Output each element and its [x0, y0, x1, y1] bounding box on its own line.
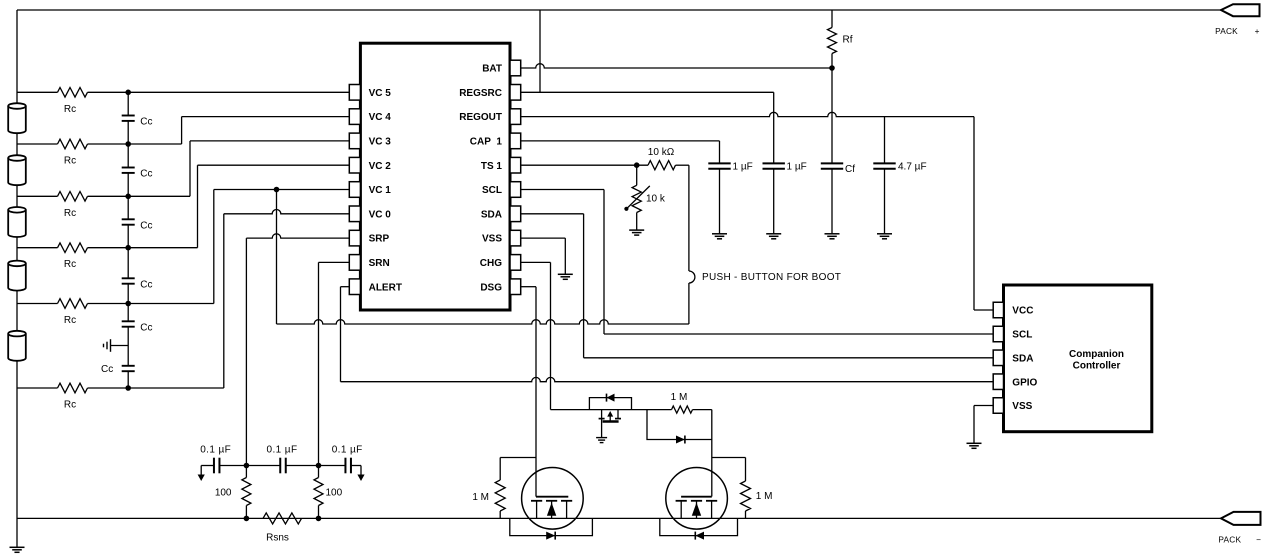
svg-text:SDA: SDA: [1012, 353, 1033, 364]
svg-text:VSS: VSS: [1012, 401, 1032, 412]
svg-text:SDA: SDA: [481, 209, 502, 220]
svg-text:REGSRC: REGSRC: [459, 88, 502, 99]
svg-text:VC 5: VC 5: [369, 88, 392, 99]
svg-text:4.7 µF: 4.7 µF: [898, 162, 927, 173]
svg-text:−: −: [1256, 535, 1261, 545]
svg-text:Rsns: Rsns: [266, 533, 289, 544]
svg-text:+: +: [1255, 26, 1260, 36]
svg-text:CAP 1: CAP 1: [470, 137, 503, 148]
svg-text:Rc: Rc: [64, 104, 76, 115]
svg-text:0.1 µF: 0.1 µF: [267, 445, 298, 456]
svg-text:SCL: SCL: [1012, 330, 1032, 341]
svg-text:VC 4: VC 4: [369, 112, 392, 123]
svg-text:Rc: Rc: [64, 259, 76, 270]
svg-text:GPIO: GPIO: [1012, 377, 1037, 388]
svg-text:Rc: Rc: [64, 400, 76, 411]
svg-text:TS 1: TS 1: [481, 161, 503, 172]
svg-text:VSS: VSS: [482, 234, 502, 245]
svg-text:Cf: Cf: [845, 164, 855, 175]
svg-text:1 M: 1 M: [472, 492, 489, 503]
svg-text:REGOUT: REGOUT: [459, 112, 502, 123]
svg-text:Companion: Companion: [1069, 349, 1124, 360]
svg-text:PACK: PACK: [1215, 26, 1238, 36]
svg-text:Cc: Cc: [140, 323, 152, 334]
svg-text:VC 1: VC 1: [369, 185, 392, 196]
svg-text:VC 3: VC 3: [369, 137, 392, 148]
svg-text:ALERT: ALERT: [369, 282, 402, 293]
svg-text:1 µF: 1 µF: [733, 162, 753, 173]
svg-text:0.1 µF: 0.1 µF: [200, 445, 231, 456]
svg-text:100: 100: [326, 488, 343, 499]
svg-text:1 M: 1 M: [756, 491, 773, 502]
svg-text:PUSH - BUTTON FOR BOOT: PUSH - BUTTON FOR BOOT: [702, 272, 841, 283]
svg-text:0.1 µF: 0.1 µF: [332, 445, 363, 456]
svg-text:SCL: SCL: [482, 185, 502, 196]
svg-text:Rc: Rc: [64, 315, 76, 326]
svg-text:SRN: SRN: [369, 258, 390, 269]
svg-text:VC 0: VC 0: [369, 209, 392, 220]
svg-text:CHG: CHG: [480, 258, 502, 269]
svg-text:Cc: Cc: [140, 117, 152, 128]
svg-text:VC 2: VC 2: [369, 161, 392, 172]
svg-text:BAT: BAT: [482, 64, 502, 75]
svg-text:Controller: Controller: [1073, 360, 1121, 371]
svg-text:10 k: 10 k: [646, 193, 666, 204]
svg-text:DSG: DSG: [480, 282, 502, 293]
svg-text:Rf: Rf: [843, 35, 853, 46]
svg-text:Cc: Cc: [140, 280, 152, 291]
svg-text:100: 100: [215, 488, 232, 499]
svg-text:10 kΩ: 10 kΩ: [648, 147, 675, 158]
svg-text:Cc: Cc: [140, 221, 152, 232]
svg-text:PACK: PACK: [1218, 535, 1241, 545]
svg-text:Cc: Cc: [140, 169, 152, 180]
svg-text:1 µF: 1 µF: [787, 162, 807, 173]
svg-text:1 M: 1 M: [671, 392, 688, 403]
svg-text:Rc: Rc: [64, 208, 76, 219]
svg-text:SRP: SRP: [369, 234, 390, 245]
svg-text:Cc: Cc: [101, 364, 113, 375]
svg-text:VCC: VCC: [1012, 306, 1033, 317]
svg-text:Rc: Rc: [64, 156, 76, 167]
